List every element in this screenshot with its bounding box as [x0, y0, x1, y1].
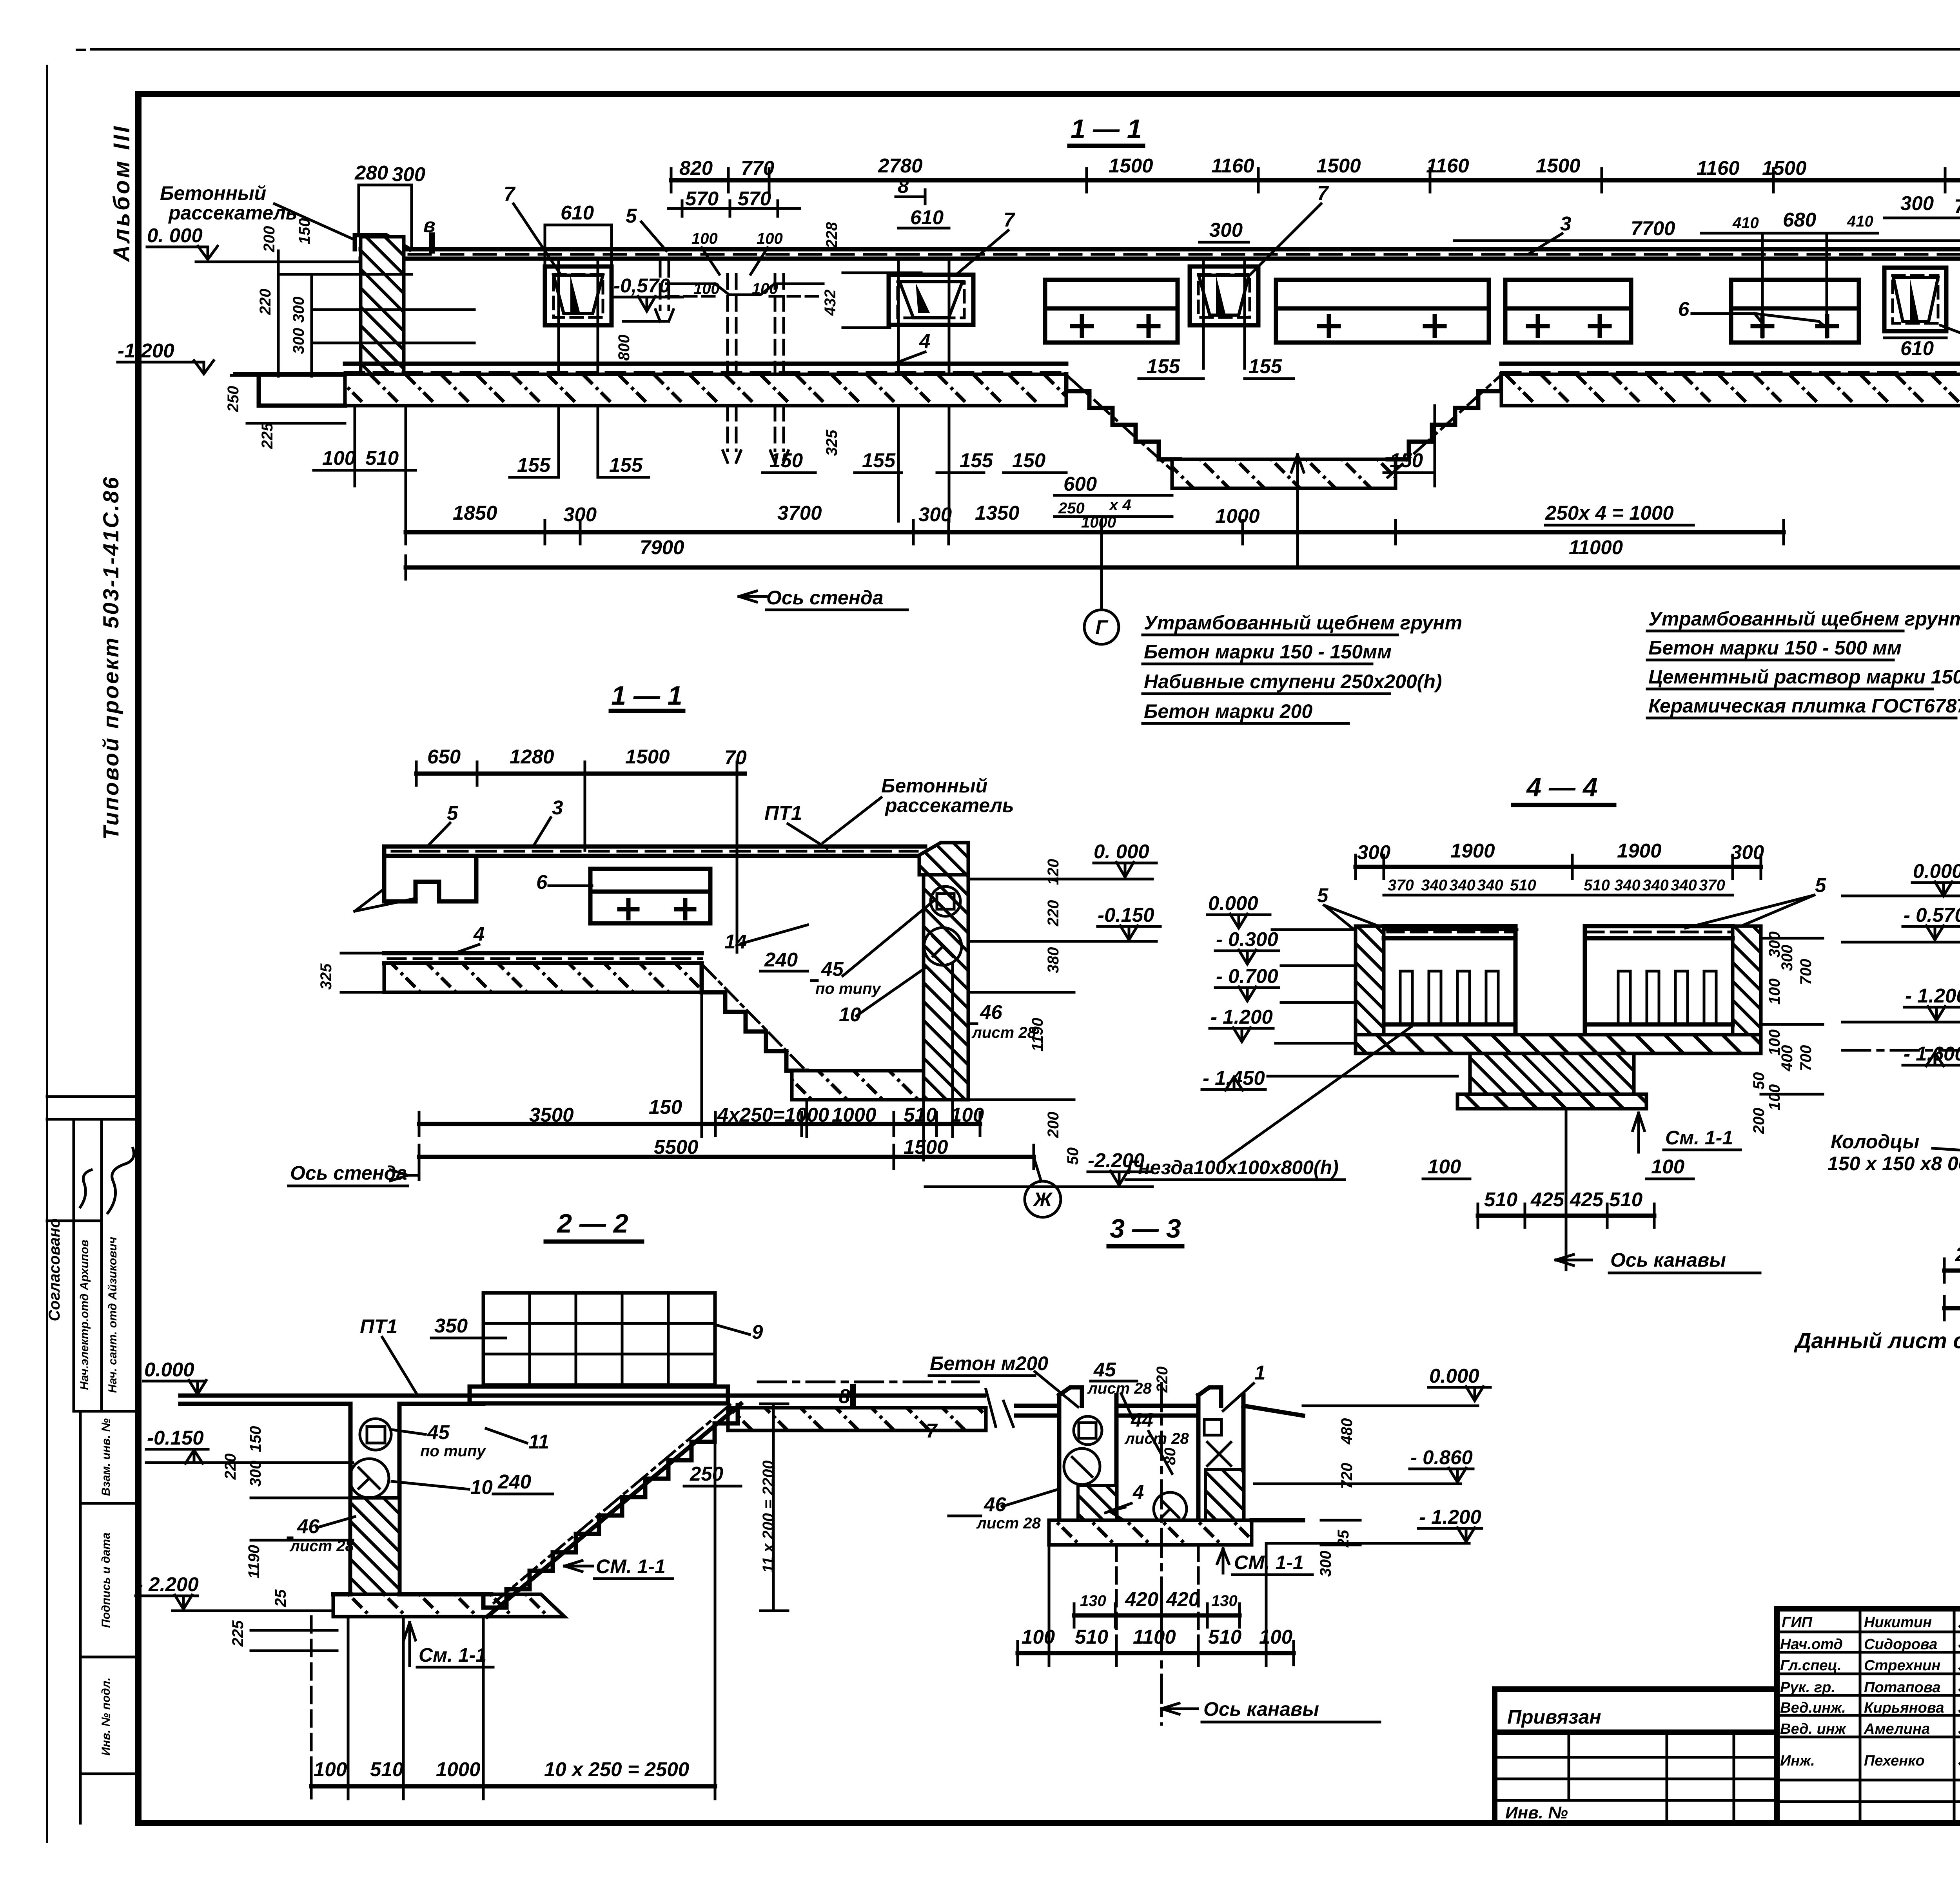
svg-text:155: 155 [1147, 355, 1180, 377]
svg-text:340: 340 [1477, 877, 1503, 894]
Ось канавы [1160, 1383, 1163, 1724]
svg-text:510: 510 [365, 447, 399, 469]
svg-text:6: 6 [536, 871, 548, 893]
svg-text:0. 000: 0. 000 [1094, 840, 1149, 863]
svg-text:46: 46 [297, 1515, 319, 1537]
wall hatch [350, 1498, 399, 1611]
right slab hatch [1501, 374, 1960, 406]
svg-text:х 4: х 4 [1109, 497, 1131, 514]
svg-text:Бетон м200: Бетон м200 [930, 1352, 1048, 1374]
svg-text:150: 150 [649, 1096, 682, 1118]
svg-text:7700: 7700 [1631, 217, 1675, 239]
svg-text:720: 720 [1338, 1463, 1356, 1489]
svg-text:ГИП: ГИП [1782, 1614, 1813, 1631]
bottom slab band [1356, 1035, 1761, 1053]
svg-text:1350: 1350 [975, 502, 1019, 524]
svg-text:4: 4 [1132, 1481, 1144, 1503]
svg-text:370: 370 [1699, 877, 1725, 894]
svg-text:- 1.200: - 1.200 [1905, 984, 1960, 1007]
svg-text:650: 650 [427, 745, 461, 768]
svg-text:9: 9 [752, 1321, 763, 1343]
svg-text:610: 610 [910, 206, 944, 228]
svg-text:Инж.: Инж. [1780, 1753, 1815, 1769]
level line with 8 mark between sections [758, 1381, 978, 1383]
svg-text:1160: 1160 [1211, 154, 1254, 177]
svg-text:Никитин: Никитин [1864, 1614, 1932, 1631]
svg-text:220: 220 [1045, 900, 1062, 927]
svg-text:420: 420 [1125, 1588, 1158, 1610]
svg-text:Утрамбованный щебнем грунт: Утрамбованный щебнем грунт [1144, 612, 1462, 634]
svg-text:0.000: 0.000 [1429, 1365, 1479, 1387]
slab hatch [384, 963, 702, 992]
svg-text:610: 610 [561, 201, 594, 224]
steps down to pit [702, 963, 807, 1071]
outer thin left line [46, 66, 48, 1842]
svg-text:11: 11 [528, 1430, 549, 1453]
floor line [384, 845, 925, 849]
svg-text:рассекатель: рассекатель [884, 794, 1014, 816]
concrete pier (Бетонный рассекатель) [355, 235, 410, 249]
svg-text:100: 100 [314, 1758, 347, 1780]
svg-text:Колодцы: Колодцы [1831, 1131, 1919, 1153]
axis circle Г [1100, 532, 1103, 610]
svg-text:150: 150 [1390, 449, 1423, 471]
svg-text:50: 50 [1750, 1072, 1768, 1090]
svg-text:Кирьянова: Кирьянова [1864, 1700, 1944, 1716]
svg-text:300: 300 [247, 1461, 264, 1487]
svg-text:240: 240 [497, 1470, 531, 1493]
svg-text:45: 45 [821, 958, 844, 980]
circle on base [1154, 1492, 1187, 1525]
svg-text:1 — 1: 1 — 1 [1071, 114, 1142, 144]
svg-text:350: 350 [434, 1314, 468, 1337]
svg-text:100: 100 [1766, 1084, 1783, 1111]
svg-text:70: 70 [724, 746, 747, 769]
svg-text:- 1.600: - 1.600 [1904, 1042, 1960, 1065]
svg-text:Пехенко: Пехенко [1864, 1753, 1925, 1769]
svg-text:- 2.200: - 2.200 [136, 1573, 199, 1595]
outer walls [1356, 926, 1384, 1053]
svg-text:250: 250 [1955, 1243, 1960, 1265]
svg-text:СМ. 1-1: СМ. 1-1 [596, 1555, 666, 1577]
svg-text:-0,570: -0,570 [613, 274, 670, 297]
svg-text:155: 155 [862, 449, 896, 471]
svg-text:380: 380 [1045, 947, 1062, 973]
svg-text:10 х 250 = 2500: 10 х 250 = 2500 [544, 1758, 689, 1780]
svg-text:100: 100 [691, 230, 718, 247]
svg-text:7: 7 [1004, 208, 1016, 231]
left slab hatch [345, 374, 1066, 406]
svg-text:лист 28: лист 28 [976, 1515, 1041, 1532]
svg-text:Нач.электр.отд Архипов: Нач.электр.отд Архипов [78, 1240, 91, 1390]
svg-text:0. 000: 0. 000 [147, 224, 203, 247]
material notes right column [1647, 608, 1960, 718]
svg-text:Цементный раствор марки 150-15: Цементный раствор марки 150-15мм [1648, 666, 1960, 688]
svg-text:370: 370 [1388, 877, 1414, 894]
svg-text:Типовой проект 503-1-41С.86: Типовой проект 503-1-41С.86 [98, 475, 123, 839]
svg-text:225: 225 [259, 422, 276, 449]
svg-text:-0.150: -0.150 [1098, 904, 1154, 926]
svg-text:7: 7 [926, 1419, 938, 1442]
svg-text:280: 280 [354, 161, 388, 184]
lower stamp boxes [79, 1411, 82, 1823]
svg-text:410: 410 [1732, 214, 1759, 232]
svg-text:228: 228 [823, 222, 840, 248]
svg-text:Гл.спец.: Гл.спец. [1780, 1657, 1842, 1674]
svg-text:Стрехнин: Стрехнин [1864, 1657, 1940, 1674]
svg-text:510: 510 [1584, 877, 1610, 894]
svg-text:- 0.300: - 0.300 [1216, 928, 1278, 950]
svg-text:155: 155 [960, 449, 993, 471]
leader arrow up to slab [1296, 455, 1299, 567]
svg-text:300: 300 [1317, 1551, 1334, 1577]
svg-text:1850: 1850 [453, 502, 497, 524]
svg-text:Ось канавы: Ось канавы [1610, 1249, 1726, 1271]
svg-text:150: 150 [296, 218, 313, 245]
svg-text:Вед. инж: Вед. инж [1780, 1721, 1847, 1737]
svg-text:325: 325 [318, 963, 335, 990]
svg-text:510: 510 [1609, 1188, 1642, 1211]
left pit wall [348, 1404, 353, 1611]
svg-text:100: 100 [693, 280, 720, 297]
svg-text:0.000: 0.000 [144, 1358, 194, 1381]
svg-text:150: 150 [769, 449, 803, 471]
svg-text:1 — 1: 1 — 1 [611, 681, 682, 711]
svg-text:425: 425 [1530, 1188, 1564, 1211]
svg-text:Согласовано: Согласовано [46, 1218, 63, 1322]
svg-text:-1.200: -1.200 [118, 339, 174, 362]
svg-text:Ось канавы: Ось канавы [1203, 1698, 1319, 1720]
svg-text:1160: 1160 [1697, 157, 1740, 179]
svg-text:1500: 1500 [1109, 154, 1153, 177]
svg-text:Данный лист смотреть с лист: Данный лист смотреть с листами 26, 28 [1794, 1328, 1960, 1353]
svg-text:340: 340 [1614, 877, 1641, 894]
left end block element 5 [384, 847, 476, 901]
svg-text:240: 240 [764, 948, 798, 971]
svg-text:5: 5 [1815, 874, 1826, 896]
svg-text:420: 420 [1166, 1588, 1200, 1610]
svg-text:25: 25 [272, 1589, 289, 1607]
svg-text:150: 150 [247, 1426, 264, 1452]
svg-text:- 0.570: - 0.570 [1904, 904, 1960, 926]
svg-text:1000: 1000 [1215, 505, 1259, 527]
svg-text:Альбом III: Альбом III [109, 124, 134, 262]
svg-text:10: 10 [470, 1476, 493, 1498]
svg-text:480: 480 [1338, 1418, 1356, 1445]
trench right steps up [1388, 374, 1501, 459]
svg-text:Подпись и дата: Подпись и дата [100, 1532, 113, 1628]
wall footing slab [470, 1387, 728, 1403]
embedded slots left [1400, 971, 1716, 1024]
svg-text:Амелина: Амелина [1864, 1721, 1930, 1737]
svg-text:1900: 1900 [1617, 839, 1661, 862]
box with + [590, 869, 710, 923]
funnel F2 [889, 259, 973, 521]
svg-text:300: 300 [290, 297, 307, 323]
svg-text:- 1.200: - 1.200 [1419, 1506, 1481, 1528]
top plates [1384, 924, 1515, 928]
svg-text:- 1.200: - 1.200 [1210, 1006, 1273, 1028]
svg-text:3700: 3700 [777, 502, 822, 524]
svg-text:340: 340 [1671, 877, 1697, 894]
svg-text:80: 80 [1161, 1448, 1179, 1465]
svg-text:1500: 1500 [625, 745, 670, 768]
svg-text:155: 155 [517, 454, 551, 476]
main top dim line [671, 178, 1960, 183]
floor line [180, 1394, 984, 1398]
svg-text:по типу: по типу [815, 980, 881, 997]
svg-text:Потапова: Потапова [1864, 1679, 1940, 1696]
svg-text:680: 680 [1783, 208, 1816, 231]
channel piers pairs (dashed) [655, 262, 788, 462]
svg-text:700: 700 [1797, 1045, 1815, 1071]
svg-text:4 — 4: 4 — 4 [1526, 772, 1597, 802]
svg-text:Ж: Ж [1032, 1188, 1053, 1211]
svg-text:340: 340 [1449, 877, 1475, 894]
svg-text:100: 100 [1651, 1155, 1684, 1178]
svg-text:100: 100 [322, 447, 356, 469]
svg-text:Нач. сант. отд Айзикович: Нач. сант. отд Айзикович [106, 1237, 119, 1393]
svg-text:300: 300 [1731, 841, 1764, 863]
svg-text:Бетон марки 150 - 150мм: Бетон марки 150 - 150мм [1144, 641, 1392, 663]
svg-text:1900: 1900 [1450, 839, 1495, 862]
svg-text:300: 300 [918, 503, 952, 526]
svg-text:1190: 1190 [245, 1545, 263, 1579]
signature squiggles [80, 1170, 91, 1207]
svg-text:Керамическая плитка ГОСТ6787-8: Керамическая плитка ГОСТ6787-80-10мм [1648, 695, 1960, 717]
svg-text:45: 45 [1093, 1358, 1116, 1381]
svg-text:100: 100 [1259, 1626, 1292, 1648]
svg-text:300: 300 [1779, 945, 1796, 971]
svg-text:ПТ1: ПТ1 [764, 802, 802, 824]
funnel F1 (element 7 opening) [545, 259, 612, 477]
svg-text:-0.150: -0.150 [147, 1427, 204, 1449]
svg-text:155: 155 [609, 454, 643, 476]
svg-text:570: 570 [738, 187, 771, 210]
svg-text:Инв. № подл.: Инв. № подл. [100, 1677, 113, 1755]
svg-text:5: 5 [447, 802, 458, 824]
svg-text:130: 130 [1080, 1592, 1106, 1610]
svg-text:14: 14 [724, 930, 747, 953]
svg-text:700: 700 [1797, 959, 1815, 985]
pit boxes (stands element 6) [1045, 280, 1859, 343]
svg-text:425: 425 [1570, 1188, 1604, 1211]
svg-text:2 — 2: 2 — 2 [556, 1209, 628, 1238]
svg-text:4: 4 [473, 923, 485, 945]
svg-text:220: 220 [257, 289, 274, 315]
central channel [1514, 926, 1518, 1094]
svg-text:200: 200 [1045, 1112, 1062, 1138]
wall circles detail [360, 1419, 391, 1450]
svg-text:7: 7 [504, 183, 516, 205]
svg-text:Г: Г [1095, 616, 1109, 638]
svg-text:Гнезда100х100х800(h): Гнезда100х100х800(h) [1127, 1157, 1339, 1178]
svg-text:46: 46 [984, 1493, 1006, 1515]
svg-text:220: 220 [222, 1454, 239, 1480]
svg-text:250: 250 [225, 386, 242, 413]
svg-text:0.000: 0.000 [1208, 892, 1258, 914]
svg-text:Вед.инж.: Вед.инж. [1780, 1700, 1846, 1716]
svg-text:100: 100 [1766, 979, 1783, 1005]
wall circles detail [931, 886, 960, 916]
svg-text:Привязан: Привязан [1507, 1706, 1601, 1728]
svg-text:4: 4 [919, 330, 930, 352]
svg-text:Рук. гр.: Рук. гр. [1780, 1679, 1835, 1696]
svg-text:по типу: по типу [420, 1443, 486, 1460]
svg-text:См. 1-1: См. 1-1 [419, 1644, 486, 1666]
Привязан block [1495, 1689, 1777, 1823]
svg-text:1500: 1500 [904, 1136, 948, 1158]
svg-text:Бетонный: Бетонный [160, 182, 266, 204]
svg-text:510: 510 [1208, 1626, 1241, 1648]
left margin stamp boxes [47, 1095, 138, 1098]
svg-text:225: 225 [229, 1620, 247, 1647]
svg-text:1500: 1500 [1762, 157, 1806, 179]
svg-text:Инв. №: Инв. № [1505, 1803, 1568, 1822]
floor tile line (element 3) [361, 247, 1960, 252]
svg-text:5: 5 [1317, 884, 1328, 906]
trench left steps down [1066, 374, 1180, 459]
svg-text:1280: 1280 [510, 745, 554, 768]
svg-text:100: 100 [757, 230, 783, 247]
svg-text:46: 46 [980, 1001, 1002, 1023]
svg-text:3: 3 [1560, 212, 1571, 235]
floor hatch right of stair [728, 1408, 986, 1430]
circle Ж [1025, 1181, 1061, 1217]
svg-text:0.000: 0.000 [1913, 860, 1960, 882]
svg-text:130: 130 [1211, 1592, 1238, 1610]
trench floor [1172, 459, 1396, 488]
svg-text:50: 50 [1064, 1148, 1082, 1165]
svg-text:5: 5 [626, 205, 637, 227]
svg-text:510: 510 [1484, 1188, 1517, 1211]
svg-text:200: 200 [261, 226, 278, 253]
svg-text:7900: 7900 [640, 536, 684, 558]
svg-text:лист 28: лист 28 [1087, 1380, 1152, 1397]
svg-text:1500: 1500 [1316, 154, 1361, 177]
svg-text:1160: 1160 [1426, 154, 1469, 177]
svg-text:45: 45 [427, 1421, 450, 1443]
svg-text:5500: 5500 [654, 1136, 698, 1158]
svg-text:8: 8 [898, 175, 909, 197]
svg-text:Сидорова: Сидорова [1864, 1636, 1937, 1653]
svg-text:300: 300 [290, 328, 307, 354]
svg-text:- 0.700: - 0.700 [1216, 965, 1278, 987]
svg-text:- 0.860: - 0.860 [1410, 1446, 1473, 1468]
inner floor lines [1384, 1022, 1515, 1027]
svg-text:Бетонный: Бетонный [881, 775, 987, 797]
svg-text:150: 150 [1012, 449, 1045, 471]
svg-text:7: 7 [1317, 182, 1329, 204]
svg-text:1100: 1100 [1133, 1626, 1176, 1648]
svg-text:3: 3 [552, 796, 563, 819]
left pedestal [1059, 1387, 1116, 1520]
svg-text:Бетон марки 200: Бетон марки 200 [1144, 700, 1312, 722]
svg-text:1500: 1500 [1536, 154, 1580, 177]
floor stubs [1016, 1404, 1059, 1408]
svg-text:120: 120 [1045, 859, 1062, 885]
pit floor hatch [333, 1594, 564, 1617]
svg-text:570: 570 [685, 187, 719, 210]
svg-text:100: 100 [1428, 1155, 1461, 1178]
svg-text:300: 300 [1357, 841, 1390, 863]
central footing [1470, 1053, 1634, 1094]
svg-text:340: 340 [1642, 877, 1669, 894]
svg-text:510: 510 [1075, 1626, 1108, 1648]
right wall hatched [924, 875, 968, 1100]
floor chamfer opening between piers [715, 284, 775, 295]
svg-text:325: 325 [823, 430, 840, 456]
svg-text:250: 250 [690, 1463, 723, 1485]
svg-text:150 х 150 х8 00(h): 150 х 150 х8 00(h) [1828, 1153, 1960, 1175]
outer thin top line [91, 48, 1960, 51]
svg-text:11000: 11000 [1569, 536, 1623, 558]
svg-text:400: 400 [1779, 1045, 1796, 1072]
svg-text:2780: 2780 [878, 154, 922, 177]
funnel F4 [1884, 268, 1946, 331]
svg-text:СМ. 1-1: СМ. 1-1 [1234, 1552, 1304, 1574]
svg-text:6: 6 [1678, 298, 1690, 320]
svg-text:700: 700 [1954, 195, 1960, 218]
tiled wall grid [483, 1293, 715, 1385]
funnel F3 [1190, 259, 1258, 368]
svg-text:250х 4 = 1000: 250х 4 = 1000 [1545, 502, 1674, 524]
svg-text:200: 200 [1750, 1108, 1768, 1135]
svg-text:ПТ1: ПТ1 [360, 1315, 397, 1338]
svg-text:лист 28: лист 28 [971, 1024, 1036, 1041]
svg-text:800: 800 [615, 335, 633, 361]
right pedestal [1198, 1387, 1243, 1520]
svg-text:610: 610 [1900, 337, 1934, 359]
svg-text:432: 432 [822, 290, 839, 316]
svg-text:Взам. инв. №: Взам. инв. № [100, 1418, 113, 1496]
signature table [1777, 1609, 1960, 1823]
svg-text:Бетон марки 150 - 500 мм: Бетон марки 150 - 500 мм [1648, 637, 1902, 659]
svg-text:1: 1 [1254, 1361, 1265, 1384]
pit floor hatch [792, 1071, 924, 1100]
svg-text:Нач.отд: Нач.отд [1780, 1636, 1843, 1653]
svg-text:300: 300 [392, 163, 425, 185]
svg-text:Набивные ступени 250х200(h): Набивные ступени 250х200(h) [1144, 671, 1442, 692]
svg-text:340: 340 [1421, 877, 1447, 894]
svg-text:44: 44 [1131, 1409, 1153, 1431]
svg-text:510: 510 [370, 1758, 403, 1780]
рассекатель hatched cap [919, 843, 968, 875]
svg-text:600: 600 [1063, 473, 1097, 495]
svg-text:Утрамбованный щебнем грунт: Утрамбованный щебнем грунт [1648, 608, 1960, 630]
svg-text:250: 250 [1058, 500, 1085, 517]
stair stringer [487, 1404, 741, 1617]
stair steps [483, 1405, 738, 1608]
material notes left column [1143, 612, 1462, 723]
svg-text:1190: 1190 [1029, 1018, 1046, 1051]
svg-text:Ось стенда: Ось стенда [766, 587, 884, 609]
svg-text:8: 8 [839, 1385, 850, 1407]
svg-text:100: 100 [752, 280, 778, 297]
svg-text:510: 510 [1510, 877, 1536, 894]
svg-text:3 — 3: 3 — 3 [1110, 1214, 1181, 1244]
svg-text:820: 820 [679, 157, 713, 179]
svg-text:300: 300 [1209, 219, 1243, 241]
svg-text:155: 155 [1249, 355, 1282, 377]
svg-text:300: 300 [1900, 192, 1934, 214]
svg-text:1000: 1000 [436, 1758, 480, 1780]
svg-text:410: 410 [1847, 213, 1873, 230]
svg-text:См. 1-1: См. 1-1 [1665, 1127, 1733, 1149]
base slab [1049, 1520, 1252, 1545]
